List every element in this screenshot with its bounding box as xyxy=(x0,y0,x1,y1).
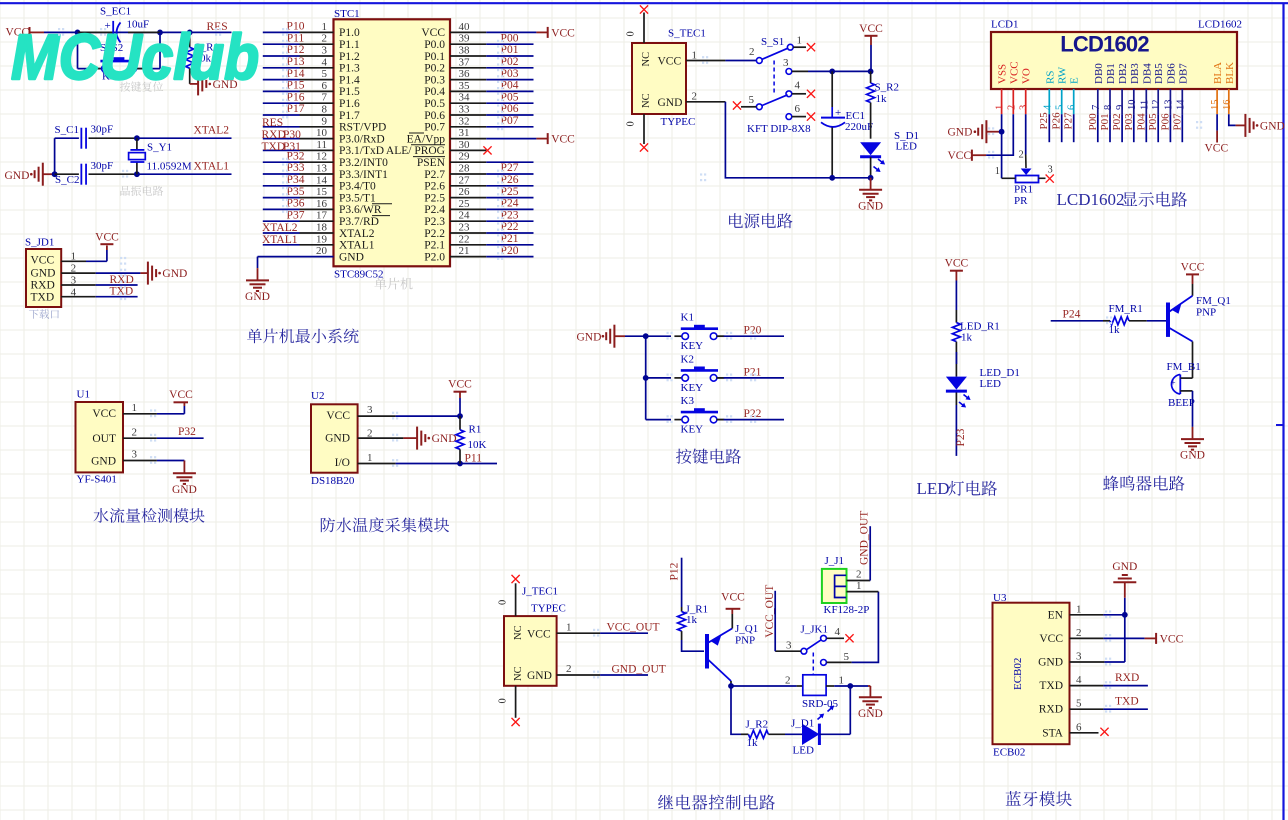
svg-text:1: 1 xyxy=(132,402,138,414)
svg-text:P05: P05 xyxy=(1147,113,1159,131)
svg-text:LED: LED xyxy=(896,141,917,153)
svg-text:ALE/ PROG: ALE/ PROG xyxy=(386,145,445,157)
junction EC1 top xyxy=(829,69,835,75)
no-connect X (J_JK1 pin4) xyxy=(845,634,853,642)
svg-text:P21: P21 xyxy=(744,366,762,378)
svg-text:FM_B1: FM_B1 xyxy=(1167,361,1201,373)
svg-text:0: 0 xyxy=(626,121,637,126)
wire VCC to switch xyxy=(725,60,756,62)
svg-text:3: 3 xyxy=(367,404,373,416)
svg-text:38: 38 xyxy=(459,45,471,57)
power port VCC (LCD) xyxy=(971,150,973,161)
svg-text:VCC: VCC xyxy=(945,258,969,270)
pin 1 stub S_S1 xyxy=(793,46,806,48)
svg-text:P04: P04 xyxy=(501,80,519,92)
relay link dashed xyxy=(812,653,814,675)
svg-text:12: 12 xyxy=(1151,100,1162,111)
svg-text:P24: P24 xyxy=(501,198,519,210)
svg-text:TXD: TXD xyxy=(262,141,286,153)
no-connect X (J_TEC1 bottom) xyxy=(512,718,520,726)
svg-text:12: 12 xyxy=(316,151,327,163)
svg-text:GND: GND xyxy=(162,268,187,280)
svg-text:GND: GND xyxy=(5,170,30,182)
svg-text:DB3: DB3 xyxy=(1129,63,1141,84)
svg-text:P22: P22 xyxy=(744,408,762,420)
svg-text:25: 25 xyxy=(459,198,471,210)
svg-text:2: 2 xyxy=(1019,150,1024,161)
svg-text:P0.3: P0.3 xyxy=(424,74,445,86)
svg-text:GND: GND xyxy=(1180,450,1205,462)
pin 0 top stub S_TEC1 xyxy=(643,13,645,44)
svg-text:1: 1 xyxy=(995,166,1000,177)
svg-text:39: 39 xyxy=(459,33,471,45)
pin 6 S_S1 xyxy=(786,114,792,120)
svg-text:P3.3/INT1: P3.3/INT1 xyxy=(339,169,388,181)
svg-text:S_C2: S_C2 xyxy=(55,174,79,186)
svg-text:P1.5: P1.5 xyxy=(339,86,360,98)
svg-text:SRD-05: SRD-05 xyxy=(802,698,839,710)
svg-text:7: 7 xyxy=(1091,105,1102,110)
transistor FM_Q1 PNP xyxy=(1166,303,1170,337)
svg-text:P07: P07 xyxy=(501,115,519,127)
svg-text:P3.1/TxD: P3.1/TxD xyxy=(339,145,384,157)
svg-text:P37: P37 xyxy=(287,209,305,221)
svg-text:8: 8 xyxy=(322,104,328,116)
junction S_D1 bottom xyxy=(868,175,874,181)
svg-text:31: 31 xyxy=(459,127,470,139)
svg-text:U1: U1 xyxy=(77,389,90,401)
pot pin3 stub xyxy=(1039,177,1046,179)
svg-text:K3: K3 xyxy=(681,395,695,407)
resistor S_R1 10k xyxy=(189,32,191,47)
svg-text:VCC_OUT: VCC_OUT xyxy=(607,622,660,634)
svg-text:P1.6: P1.6 xyxy=(339,98,360,110)
resistor LED_R1 1k xyxy=(955,310,957,323)
svg-text:P32: P32 xyxy=(178,426,196,438)
svg-text:2: 2 xyxy=(692,91,698,103)
wire switch out xyxy=(808,70,871,72)
svg-text:VCC_OUT: VCC_OUT xyxy=(764,585,776,638)
svg-text:P3.7/RD: P3.7/RD xyxy=(339,216,379,228)
svg-text:P15: P15 xyxy=(287,80,305,92)
title 水流量检测模块 xyxy=(93,508,108,523)
svg-text:P14: P14 xyxy=(287,68,305,80)
diode S_D1 LED xyxy=(860,142,881,155)
svg-text:1: 1 xyxy=(839,675,845,687)
svg-text:VCC: VCC xyxy=(1008,61,1020,84)
svg-text:24: 24 xyxy=(459,210,471,222)
svg-text:GND: GND xyxy=(245,291,270,303)
resistor J_R2 1k xyxy=(741,733,748,735)
svg-text:4: 4 xyxy=(1042,104,1053,110)
svg-text:2: 2 xyxy=(566,663,572,675)
svg-text:VCC: VCC xyxy=(1205,143,1229,155)
svg-text:P02: P02 xyxy=(1111,113,1123,130)
svg-text:P0.0: P0.0 xyxy=(424,39,445,51)
svg-text:20: 20 xyxy=(316,245,328,257)
svg-text:P1.2: P1.2 xyxy=(339,51,360,63)
svg-text:P12: P12 xyxy=(287,44,305,56)
svg-text:R1: R1 xyxy=(469,424,482,436)
power port VCC (U1) xyxy=(183,406,185,414)
LCD pin15 BLA wire to VCC xyxy=(1216,114,1218,130)
svg-text:TYPEC: TYPEC xyxy=(531,603,566,615)
svg-text:P03: P03 xyxy=(1123,113,1135,131)
diode J_D1 LED xyxy=(785,733,802,735)
svg-text:1k: 1k xyxy=(686,614,698,626)
ground (U2) xyxy=(416,427,418,450)
svg-text:XTAL1: XTAL1 xyxy=(262,234,298,246)
svg-text:1: 1 xyxy=(995,105,1006,110)
no-connect X (PR1 pin3) xyxy=(1046,175,1054,183)
diode LED_D1 LED xyxy=(955,364,957,377)
svg-text:P1.0: P1.0 xyxy=(339,27,360,39)
svg-text:XTAL1: XTAL1 xyxy=(194,161,230,173)
svg-text:P1.4: P1.4 xyxy=(339,74,360,86)
svg-text:27: 27 xyxy=(459,174,471,186)
no-connect X (S_S1 pin4) xyxy=(807,90,815,98)
junction S_R2 top xyxy=(868,69,874,75)
svg-text:P0.4: P0.4 xyxy=(424,86,445,98)
svg-text:220uF: 220uF xyxy=(845,121,873,133)
svg-text:2: 2 xyxy=(856,569,862,581)
svg-text:P0.7: P0.7 xyxy=(424,122,445,134)
svg-text:36: 36 xyxy=(459,68,471,80)
svg-text:4: 4 xyxy=(835,626,841,638)
svg-text:0: 0 xyxy=(498,600,509,605)
wire LED_D1 to P23 xyxy=(955,405,957,456)
wire P24 to FM_R1 xyxy=(1051,320,1103,322)
svg-text:PR1: PR1 xyxy=(1014,184,1033,196)
svg-text:XTAL2: XTAL2 xyxy=(339,228,375,240)
wire R1 to LED_D1 xyxy=(955,352,957,364)
potentiometer PR1 wiper arrow xyxy=(1021,169,1032,176)
svg-text:33: 33 xyxy=(459,104,471,116)
pot pin1 wire from VSS xyxy=(1002,177,1016,179)
svg-text:P06: P06 xyxy=(1159,113,1171,131)
pin 3 S_S1 xyxy=(786,69,792,75)
svg-text:VCC: VCC xyxy=(551,27,575,39)
svg-text:DB0: DB0 xyxy=(1093,63,1105,84)
wire pin5 to KF128 pin1 xyxy=(852,592,879,663)
svg-text:P07: P07 xyxy=(1171,113,1183,131)
label 晶振电路 xyxy=(120,186,129,196)
svg-text:K1: K1 xyxy=(681,312,694,324)
svg-text:S_TEC1: S_TEC1 xyxy=(668,28,706,40)
svg-text:P36: P36 xyxy=(287,198,305,210)
svg-text:GND: GND xyxy=(31,268,56,280)
wire GND down and right xyxy=(725,102,870,178)
svg-text:LCD1: LCD1 xyxy=(991,19,1019,31)
svg-text:10K: 10K xyxy=(468,439,487,451)
svg-text:VCC: VCC xyxy=(948,150,972,162)
ground (reset resistor) xyxy=(190,83,198,85)
svg-text:YF-S401: YF-S401 xyxy=(77,474,117,486)
svg-text:P2.1: P2.1 xyxy=(424,240,445,252)
no-connect X (pin 30) xyxy=(483,146,491,154)
ground (relay) xyxy=(868,685,870,687)
svg-text:P3.0/RxD: P3.0/RxD xyxy=(339,133,385,145)
pin 4 S_S1 xyxy=(786,91,792,97)
svg-text:1: 1 xyxy=(797,35,803,47)
ground (buzzer) xyxy=(1181,438,1204,440)
svg-text:LCD1602: LCD1602 xyxy=(1198,19,1242,31)
svg-text:RST/VPD: RST/VPD xyxy=(339,122,386,134)
svg-text:BLK: BLK xyxy=(1224,62,1236,84)
junction R1 top xyxy=(457,413,463,419)
svg-text:NC: NC xyxy=(641,52,652,67)
svg-text:P23: P23 xyxy=(501,209,519,221)
junction XTAL2 xyxy=(134,135,140,141)
svg-text:GND: GND xyxy=(858,200,883,212)
svg-text:DB1: DB1 xyxy=(1105,63,1117,84)
svg-text:16: 16 xyxy=(1222,100,1233,111)
svg-text:5: 5 xyxy=(844,651,850,663)
power port VCC (buzzer) xyxy=(1186,273,1199,275)
svg-text:PNP: PNP xyxy=(1196,307,1216,319)
wire FM_R1 to base xyxy=(1147,320,1166,322)
svg-text:P2.3: P2.3 xyxy=(424,216,445,228)
svg-text:3: 3 xyxy=(783,57,789,69)
svg-text:P0.2: P0.2 xyxy=(424,63,445,75)
svg-text:GND: GND xyxy=(325,433,350,445)
no-connect X (J_TEC1 top) xyxy=(512,575,520,583)
ground (LCD backlight) xyxy=(1244,114,1246,137)
svg-text:DB4: DB4 xyxy=(1141,63,1153,84)
svg-text:DB5: DB5 xyxy=(1153,63,1165,84)
svg-text:2: 2 xyxy=(322,33,328,45)
svg-text:30pF: 30pF xyxy=(91,124,114,136)
svg-text:GND: GND xyxy=(1260,120,1285,132)
svg-text:11: 11 xyxy=(1139,100,1150,110)
svg-text:LCD1602: LCD1602 xyxy=(1060,32,1149,57)
svg-text:GND: GND xyxy=(339,251,364,263)
label 下载口 xyxy=(29,309,39,318)
svg-text:P22: P22 xyxy=(501,221,519,233)
wire U1 gnd down xyxy=(183,460,185,463)
svg-text:VCC: VCC xyxy=(859,23,883,35)
svg-text:P25: P25 xyxy=(1038,112,1050,130)
wire GND_OUT vertical xyxy=(869,526,871,580)
svg-text:3: 3 xyxy=(1076,651,1082,663)
svg-text:KEY: KEY xyxy=(681,424,704,436)
svg-text:BEEP: BEEP xyxy=(1168,397,1195,409)
svg-text:FM_Q1: FM_Q1 xyxy=(1196,295,1231,307)
svg-text:10: 10 xyxy=(1127,100,1138,111)
svg-text:VCC: VCC xyxy=(92,408,116,420)
svg-text:1: 1 xyxy=(566,622,572,634)
svg-text:LED: LED xyxy=(917,479,950,498)
wire VCC to LED_R1 xyxy=(955,281,957,311)
no-connect X (U3 STA) xyxy=(1100,728,1108,736)
svg-text:RXD: RXD xyxy=(1039,704,1063,716)
potentiometer PR1 body xyxy=(1016,176,1039,183)
svg-text:XTAL2: XTAL2 xyxy=(262,222,298,234)
svg-text:P2.4: P2.4 xyxy=(424,204,445,216)
svg-text:14: 14 xyxy=(1175,99,1186,110)
svg-text:S_EC1: S_EC1 xyxy=(100,6,131,18)
svg-text:0: 0 xyxy=(626,31,637,36)
svg-text:RS: RS xyxy=(1044,71,1056,84)
svg-text:STC1: STC1 xyxy=(334,8,360,20)
svg-text:21: 21 xyxy=(459,245,470,257)
svg-text:9: 9 xyxy=(322,115,328,127)
transistor J_Q1 PNP xyxy=(705,634,709,669)
svg-text:28: 28 xyxy=(459,163,471,175)
power port VCC (STC1 pin 40) xyxy=(536,31,547,33)
resistor R1 10K xyxy=(459,416,461,430)
svg-text:GND: GND xyxy=(658,97,683,109)
svg-text:GND: GND xyxy=(91,456,116,468)
wire gnd to key trunk xyxy=(625,335,671,337)
svg-text:GND: GND xyxy=(432,433,457,445)
no-connect X (S_S1 pin6) xyxy=(807,113,815,121)
svg-text:3: 3 xyxy=(1019,105,1030,110)
svg-text:GND: GND xyxy=(527,670,552,682)
svg-text:J_JK1: J_JK1 xyxy=(801,624,829,636)
svg-text:ECB02: ECB02 xyxy=(1012,658,1024,690)
junction R1 bottom xyxy=(457,461,463,467)
svg-text:6: 6 xyxy=(322,80,328,92)
svg-text:P35: P35 xyxy=(287,186,305,198)
svg-text:VSS: VSS xyxy=(997,64,1009,84)
pin 0 top stub J_TEC1 xyxy=(515,583,517,616)
svg-text:STA: STA xyxy=(1042,727,1063,739)
wire J_R1 to base xyxy=(682,640,704,651)
svg-text:MCUclub: MCUclub xyxy=(11,21,259,93)
svg-text:U2: U2 xyxy=(311,390,324,402)
wire K2 to P21 xyxy=(717,377,724,379)
junction crystal gnd xyxy=(52,171,58,177)
svg-text:18: 18 xyxy=(316,222,328,234)
wire J_D1 to gnd junction xyxy=(819,733,850,735)
compile-mask dots xyxy=(58,28,60,30)
svg-text:5: 5 xyxy=(322,68,328,80)
svg-text:P25: P25 xyxy=(501,186,519,198)
svg-text:4: 4 xyxy=(1076,674,1082,686)
wire K1 to P20 xyxy=(717,335,724,337)
wire VCC to FM_Q1 emitter xyxy=(1192,284,1194,296)
pin 5 S_S1 with lever xyxy=(756,104,762,110)
svg-text:DS18B20: DS18B20 xyxy=(311,475,355,487)
svg-text:2: 2 xyxy=(1076,627,1082,639)
svg-text:3: 3 xyxy=(322,45,328,57)
svg-text:VCC: VCC xyxy=(527,629,551,641)
ground (STC1) xyxy=(246,279,269,281)
svg-text:P1.3: P1.3 xyxy=(339,63,360,75)
svg-text:P03: P03 xyxy=(501,68,519,80)
svg-text:P12: P12 xyxy=(669,562,681,580)
svg-text:0: 0 xyxy=(498,698,509,703)
svg-text:GND: GND xyxy=(577,332,602,344)
wire gnd up to C1 xyxy=(54,138,56,174)
title 蓝牙模块 xyxy=(1006,791,1021,806)
svg-text:P2.6: P2.6 xyxy=(424,181,445,193)
svg-text:VCC: VCC xyxy=(721,592,745,604)
wire STC1 GND pin 20 xyxy=(257,257,259,269)
wire relay pin1 to gnd xyxy=(834,685,868,687)
junction LCD gnd xyxy=(999,129,1005,135)
svg-text:GND: GND xyxy=(172,484,197,496)
LCD data pin wires xyxy=(1048,114,1050,142)
svg-text:P2.5: P2.5 xyxy=(424,192,445,204)
svg-text:P11: P11 xyxy=(287,32,305,44)
junction reset-cap right xyxy=(157,30,163,36)
LCD pin2 VCC wire xyxy=(986,114,1013,155)
label 单片机 xyxy=(374,278,386,290)
svg-text:+: + xyxy=(1171,378,1176,388)
svg-text:TYPEC: TYPEC xyxy=(661,116,696,128)
junction reset-cap left xyxy=(75,30,81,36)
svg-text:TXD: TXD xyxy=(31,292,55,304)
ground (U3, flipped) xyxy=(1124,598,1126,615)
svg-text:2: 2 xyxy=(749,46,755,58)
svg-text:S_Y1: S_Y1 xyxy=(147,142,172,154)
svg-text:E: E xyxy=(1069,77,1081,84)
wire cap right leg down xyxy=(159,32,161,68)
svg-text:2: 2 xyxy=(785,675,791,687)
svg-text:J_R2: J_R2 xyxy=(746,719,769,731)
svg-text:P3.4/T0: P3.4/T0 xyxy=(339,181,376,193)
svg-text:P27: P27 xyxy=(1063,112,1075,130)
svg-text:P01: P01 xyxy=(501,44,519,56)
svg-text:1k: 1k xyxy=(876,93,888,105)
light arrows LED_D1 xyxy=(962,392,972,402)
svg-text:FM_R1: FM_R1 xyxy=(1109,303,1143,315)
svg-text:11.0592M: 11.0592M xyxy=(147,161,192,173)
svg-text:GND_OUT: GND_OUT xyxy=(612,663,666,675)
svg-text:S_JD1: S_JD1 xyxy=(25,237,54,249)
title 按键电路 xyxy=(676,449,692,464)
svg-text:P01: P01 xyxy=(1099,113,1111,130)
power port VCC (download) xyxy=(106,250,108,261)
svg-text:1: 1 xyxy=(1076,603,1082,615)
svg-text:I/O: I/O xyxy=(335,457,350,469)
wire VCC rail to RES xyxy=(44,31,232,33)
svg-text:6: 6 xyxy=(1076,721,1082,733)
svg-text:VCC: VCC xyxy=(326,410,350,422)
svg-text:P26: P26 xyxy=(501,174,519,186)
svg-text:16: 16 xyxy=(316,198,328,210)
svg-text:P24: P24 xyxy=(1063,309,1081,321)
svg-text:26: 26 xyxy=(459,186,471,198)
svg-text:P21: P21 xyxy=(501,233,519,245)
no-connect X (S_TEC1 bottom) xyxy=(640,143,648,151)
svg-text:8: 8 xyxy=(1103,105,1114,110)
svg-text:GND_OUT: GND_OUT xyxy=(858,511,870,565)
svg-text:5: 5 xyxy=(1055,105,1066,110)
wire J_Q1 collector down xyxy=(730,681,732,686)
svg-text:1: 1 xyxy=(367,452,373,464)
junction key trunk K2 xyxy=(643,375,649,381)
svg-text:KEY: KEY xyxy=(681,340,704,352)
svg-text:P20: P20 xyxy=(744,325,762,337)
LCD pin3 VO wire to pot wiper xyxy=(1025,114,1027,154)
wire emitter down to buzzer xyxy=(1192,342,1194,379)
wire down to J_R2 xyxy=(731,686,741,734)
svg-text:J_TEC1: J_TEC1 xyxy=(522,586,558,598)
svg-text:XTAL1: XTAL1 xyxy=(339,240,375,252)
svg-text:J_D1: J_D1 xyxy=(791,718,814,730)
svg-text:30: 30 xyxy=(459,139,471,151)
svg-text:P1.7: P1.7 xyxy=(339,110,360,122)
key trunk vertical xyxy=(645,336,647,419)
svg-text:2: 2 xyxy=(132,427,138,439)
svg-text:19: 19 xyxy=(316,233,328,245)
svg-text:NC: NC xyxy=(513,625,524,640)
wire buzzer to gnd xyxy=(1192,391,1194,427)
svg-text:BLA: BLA xyxy=(1212,62,1224,84)
